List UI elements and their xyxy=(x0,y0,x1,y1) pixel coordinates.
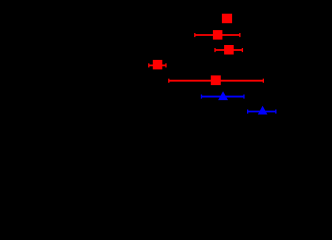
series A point 4: red square marker xyxy=(153,60,163,70)
series A point 2: error bar xyxy=(194,33,240,37)
series B point 2: blue triangle marker xyxy=(258,106,268,115)
series A point 1: red square marker (no visible error bar) xyxy=(222,14,232,24)
series B point 2: error bar xyxy=(247,110,277,114)
series A point 4: error bar xyxy=(148,63,166,67)
series A point 3: red square marker xyxy=(224,45,234,55)
series A point 3: error bar xyxy=(214,48,243,52)
series B point 1: blue triangle marker xyxy=(218,91,228,100)
series A point 2: red square marker xyxy=(213,30,223,39)
series A point 5: error bar xyxy=(168,79,264,83)
series B point 1: error bar xyxy=(201,95,245,99)
series A point 5: red square marker xyxy=(211,75,221,85)
